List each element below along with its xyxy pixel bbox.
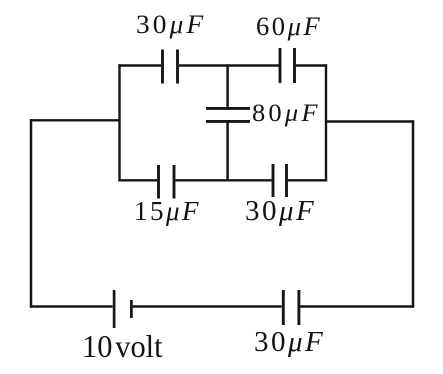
label 80uF for C3 bbox=[252, 101, 321, 126]
wire inner right vertical bbox=[325, 64, 327, 181]
label 15uF for C4 bbox=[134, 198, 201, 225]
capacitor C1 30uF top-left plates bbox=[163, 50, 178, 84]
label 30uF for C6 bbox=[254, 328, 325, 357]
capacitor C3 80uF middle plates bbox=[206, 108, 250, 121]
label 30uF for C5 bbox=[245, 197, 316, 226]
label 60uF for C2 bbox=[256, 14, 322, 40]
capacitor C5 30uF bottom-right plates bbox=[273, 164, 287, 197]
label 30uF for C1 bbox=[136, 12, 206, 38]
wire right connection bbox=[326, 120, 414, 122]
wire inner left vertical bbox=[118, 64, 120, 181]
wire outer right vertical bbox=[412, 120, 415, 307]
capacitor C2 60uF top-right plates bbox=[280, 48, 295, 83]
wire outer left vertical bbox=[30, 119, 33, 308]
capacitor C4 15uF bottom-left plates bbox=[159, 165, 175, 199]
label 10 volt for battery bbox=[82, 330, 163, 362]
wire top side of inner network bbox=[118, 64, 327, 66]
capacitor C6 30uF bottom outer plates bbox=[283, 290, 299, 325]
battery B1 short plate bbox=[130, 300, 133, 318]
wire middle branch vertical bbox=[226, 64, 229, 181]
wire inner bottom side bbox=[118, 179, 327, 181]
wire bottom side bbox=[30, 305, 414, 308]
battery B1 long plate bbox=[113, 290, 116, 328]
wire left connection bbox=[30, 119, 119, 121]
